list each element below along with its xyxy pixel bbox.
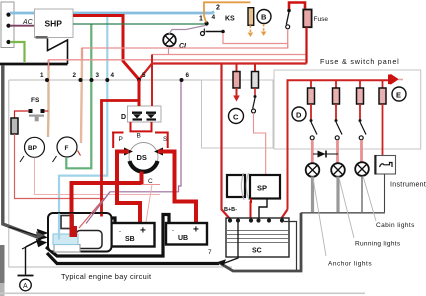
svg-text:B: B [261,13,267,22]
break marks [246,173,249,200]
svg-text:+: + [140,226,146,237]
svg-text:FS: FS [31,97,40,104]
tick at F right [78,151,81,156]
panel column 4 to instrument [382,80,384,88]
FS fuse holder [29,97,45,121]
panel column 2 [335,80,337,88]
orange dashed arrow below B [261,24,267,36]
svg-text:2: 2 [216,5,220,12]
svg-text:Running lights: Running lights [355,241,401,248]
wire thick red left brush [117,152,140,224]
glow plug pale blue box [53,234,78,245]
gray wire arrow [36,232,45,239]
svg-text:Cabin lights: Cabin lights [376,222,415,229]
diode 1 [132,112,142,121]
wire red FS left to fuse [45,110,49,112]
svg-text:Typical engine bay circuit: Typical engine bay circuit [61,272,151,281]
svg-text:-: - [119,229,121,235]
wire purple terminal6 to engine [86,81,181,223]
thin pink diagonal to SB+ [146,185,152,223]
KS fuse [248,8,254,26]
wire red SP lead [250,199,253,219]
svg-text:B: B [137,133,141,140]
AC terminal dots [6,13,10,45]
orange dashed arrow below KS fuse [248,25,254,37]
SHP switch to ground [48,39,68,65]
UB negative cable [46,215,169,257]
circle B [257,10,271,24]
DS crown left [112,132,124,134]
wire purple AC to SHP [10,25,35,27]
svg-text:A: A [23,283,28,290]
svg-text:2: 2 [73,72,77,79]
motor F [57,137,77,157]
gray ground drops from lamps [311,177,314,213]
svg-text:1: 1 [199,16,203,23]
svg-text:KS: KS [225,16,235,23]
lamp CI [163,34,176,47]
wire blue AC to KS terminal 4 [10,12,214,14]
leader lines [313,176,376,256]
wire thick red SHP feed [73,16,139,80]
switch 2 [254,95,257,98]
svg-text:SHP: SHP [45,19,63,29]
circle D [292,107,306,121]
circle E [392,87,406,101]
wire green SHP to KS [73,23,204,25]
wire red right funnel to SC [281,209,288,219]
outer gray enclosure box [9,80,273,267]
SC terminals [228,219,283,222]
wire red starter cable inside engine [70,214,74,230]
svg-text:+: + [193,225,199,236]
AC terminal strip [1,2,14,48]
left fuse [11,118,18,134]
svg-text:SP: SP [257,184,267,193]
wire pink line y54 [152,54,306,56]
SP box [250,175,280,199]
wire thick red right brush / S [158,152,196,223]
svg-text:S: S [163,136,168,143]
wire red line54 drop to diode box [151,55,153,107]
svg-text:SB: SB [125,236,135,243]
DS crown B platform [131,122,152,131]
wire red fuse down to feed line [305,27,307,63]
svg-text:4: 4 [212,14,216,21]
motor BP [25,137,45,157]
svg-text:5: 5 [142,72,146,79]
panel bus [288,80,390,209]
wire thick gray left ground drop [3,66,40,239]
wire pink line y59.8 [49,60,306,70]
SB negative cable [111,218,115,223]
diode box [128,106,162,122]
bottom negative bus [47,253,219,264]
wire tan terminal1 to BP [47,60,50,137]
bottom scan smudge [0,245,5,283]
SC box [226,218,289,257]
svg-text:E: E [396,91,401,100]
C-panel gray box [202,80,274,148]
wire red fuse down [15,134,105,228]
wire red engine branch [102,101,140,214]
svg-text:Anchor lights: Anchor lights [328,261,372,268]
svg-text:DS: DS [137,153,147,162]
oil pressure switch d [201,29,225,36]
svg-text:BP: BP [28,145,38,152]
wire thin red diagonal inside engine [79,199,104,229]
svg-text:CI: CI [179,43,187,50]
svg-text:F: F [65,145,69,152]
svg-text:B+B-: B+B- [224,207,237,213]
Fuse (main) [303,10,311,28]
fuse & switch panel box [274,70,421,149]
wire cyan terminal4 to engine [59,14,107,239]
brush arrows [124,148,163,156]
svg-text:-: - [172,228,174,234]
svg-text:UB: UB [178,235,188,242]
thin pink stub right of C node [142,184,161,186]
wire thick red C to starter [72,172,142,232]
svg-text:D: D [121,114,126,121]
svg-text:4: 4 [111,72,115,79]
wire black SP lead [259,199,267,219]
svg-text:P: P [119,136,123,143]
SHP box [35,9,74,38]
wire thick red start switch to Fuse [289,3,305,10]
SC grille [227,231,288,243]
ground arrows at engine [9,227,47,249]
battery UB [166,223,207,245]
SC ground wire [222,223,238,265]
wire purple KS to CI [169,26,205,35]
starter post red blob [70,226,78,237]
wire BP down [35,158,161,195]
wire green AC down [10,42,25,62]
battery SB [112,223,155,247]
dynastart DS [129,143,158,172]
anode A [25,247,27,275]
wire pink terminal2 to F [81,48,82,143]
wire black ground bus top-left [0,63,68,66]
svg-text:SC: SC [252,248,262,255]
KS key switch [199,5,235,26]
lamp anchor [355,162,369,176]
DS crown right [155,133,168,149]
wire black SC t6 right [284,222,297,271]
numbered terminals on gray line [45,78,184,82]
svg-text:D: D [296,111,302,120]
wire CI down [168,47,170,55]
instrument [375,156,396,175]
panel column 1 [310,80,312,88]
wire green terminal3 to F [66,25,91,169]
svg-text:1: 1 [40,72,44,79]
wire red feed line to Fuse [139,64,307,80]
start switch [286,9,291,29]
svg-text:Fuse: Fuse [314,16,329,23]
wire cyan inside engine [58,214,60,240]
fuse 2 column [254,64,256,72]
engine block [48,213,112,252]
diode between lamp columns [313,153,338,155]
panel column 3 [359,80,361,88]
svg-text:6: 6 [186,72,190,79]
svg-text:7: 7 [208,249,212,256]
red arrow below fuse C [236,88,238,96]
gray ground return [219,213,301,271]
wire pink line y48 [82,29,288,59]
gray ground bus [301,212,385,214]
diode 2 [146,112,156,121]
wire red apex to diode box [138,80,141,107]
svg-text:Instrument: Instrument [390,182,426,189]
SHP ground stub [36,36,48,39]
circle C [229,109,244,124]
lamp running [331,163,345,177]
wire pink d-switch line [223,33,288,48]
box left of SP [227,175,245,197]
svg-text:3: 3 [96,72,100,79]
wire purple sender inside engine [86,192,110,224]
lamp cabin [306,163,320,177]
wire thin red to SP [254,113,266,175]
fuse C column [236,64,238,72]
svg-text:Fuse & switch panel: Fuse & switch panel [320,57,400,66]
wire red panel feed down to SC [222,64,231,220]
svg-text:C: C [233,113,239,122]
wire orange top to KS [204,2,250,22]
